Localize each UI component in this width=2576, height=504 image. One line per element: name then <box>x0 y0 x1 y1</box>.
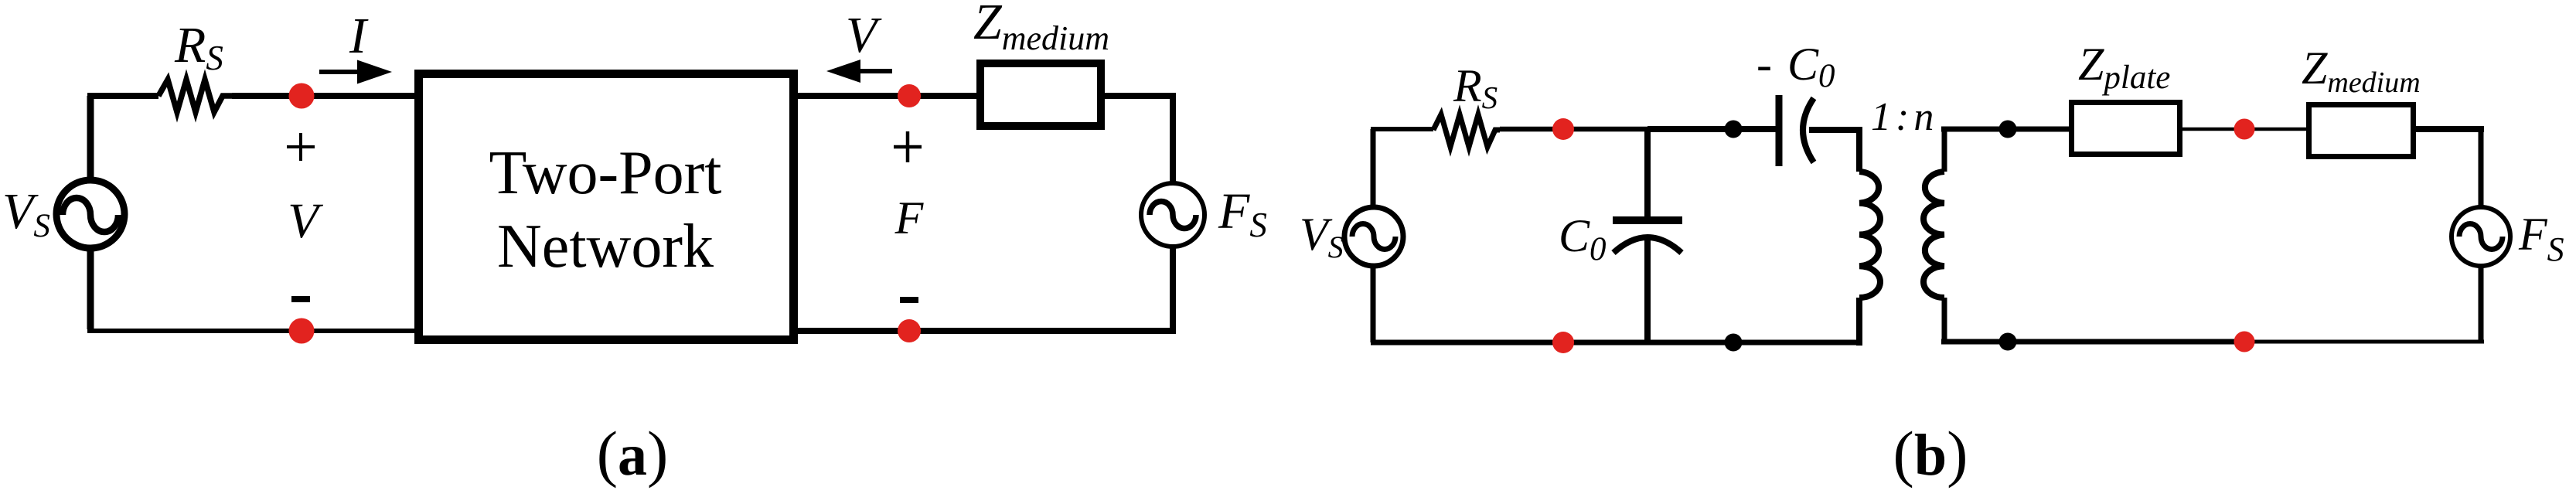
svg-text:Network: Network <box>497 213 714 281</box>
wire: (b) Z_medium to right corner <box>2413 126 2484 132</box>
node: (b) top right red <box>2234 119 2255 140</box>
svg-text:I: I <box>349 8 369 64</box>
wire: (b) secondary top stub and horizontal <box>1941 127 2074 172</box>
wire: (a) right vertical through F_S <box>1170 93 1176 331</box>
svg-text:Two-Port: Two-Port <box>489 139 721 207</box>
node: (a) left bottom red <box>289 318 315 344</box>
svg-text:(a): (a) <box>597 418 669 489</box>
wire: (b) Z_plate to Z_medium <box>2179 128 2312 131</box>
impedance box Z_plate <box>2072 103 2180 155</box>
wire: (a) top-left horizontal V_S to resistor <box>87 93 158 99</box>
capacitor -C0 series <box>1779 95 1859 166</box>
node: (b) secondary bottom black <box>1999 333 2017 351</box>
node: (b) bottom right red <box>2234 332 2255 352</box>
node: (a) right bottom red <box>898 319 921 342</box>
label - right port (a) <box>900 297 918 303</box>
impedance box Z_medium (a) <box>980 63 1101 126</box>
impedance box Z_medium (b) <box>2309 105 2414 157</box>
capacitor C0 shunt branch <box>1613 129 1682 342</box>
current arrow I (a) <box>319 60 392 84</box>
node: (b) bottom middle black <box>1725 334 1743 352</box>
svg-text:(b): (b) <box>1893 418 1968 489</box>
source V_S (a) <box>56 180 124 248</box>
resistor R_S (b) zigzag <box>1433 114 1500 147</box>
wire: (a) bottom-left horizontal <box>87 329 417 333</box>
node: (a) right top red <box>898 84 921 107</box>
svg-text:V: V <box>288 193 323 249</box>
wire: (a) resistor to two-port box <box>232 93 417 99</box>
wire: (a) left vertical, source branch <box>87 96 94 329</box>
wire: (a) bottom right horizontal <box>794 328 1176 334</box>
wire: (a) box to Z_medium and right corner <box>794 93 1173 99</box>
two-port network box U1 <box>419 74 794 340</box>
source V_S (b) <box>1344 207 1403 266</box>
resistor R_S (a) zigzag <box>158 80 232 112</box>
svg-text:F: F <box>894 192 925 243</box>
transformer secondary winding L2 <box>1923 172 1944 298</box>
wire: (b) primary coil lower stub <box>1856 298 1862 346</box>
source F_S (b) <box>2452 207 2510 266</box>
arrow V pointing left (a) <box>826 60 892 83</box>
node: (b) bottom-left red <box>1552 332 1574 353</box>
node: (b) secondary top black <box>1999 121 2017 138</box>
wire: (b) top-left horizontal <box>1371 127 1433 131</box>
wire: (b) right vertical through F_S <box>2479 126 2484 342</box>
svg-text:1:n: 1:n <box>1871 95 1938 139</box>
wire: (b) left vertical source branch <box>1371 129 1376 342</box>
node: (a) left top red <box>289 83 315 109</box>
wire: (b) bottom right horizontal <box>1941 339 2246 345</box>
label + right port (a) <box>894 131 922 162</box>
label - left port (a) <box>291 296 310 302</box>
node: (b) top-left red <box>1552 118 1574 140</box>
wire: (b) resistor to node and C0 branch <box>1500 127 1647 132</box>
svg-text:V: V <box>846 7 882 63</box>
wire: (b) cap corner down to primary coil <box>1856 127 1862 172</box>
label + left port (a) <box>287 133 315 161</box>
source F_S (a) <box>1141 183 1205 247</box>
transformer primary winding L1 <box>1859 172 1880 298</box>
wire: (b) bottom-left horizontal <box>1371 340 1859 346</box>
node: (b) top middle black <box>1725 121 1743 138</box>
wire: (b) secondary bottom stub <box>1942 298 1947 344</box>
